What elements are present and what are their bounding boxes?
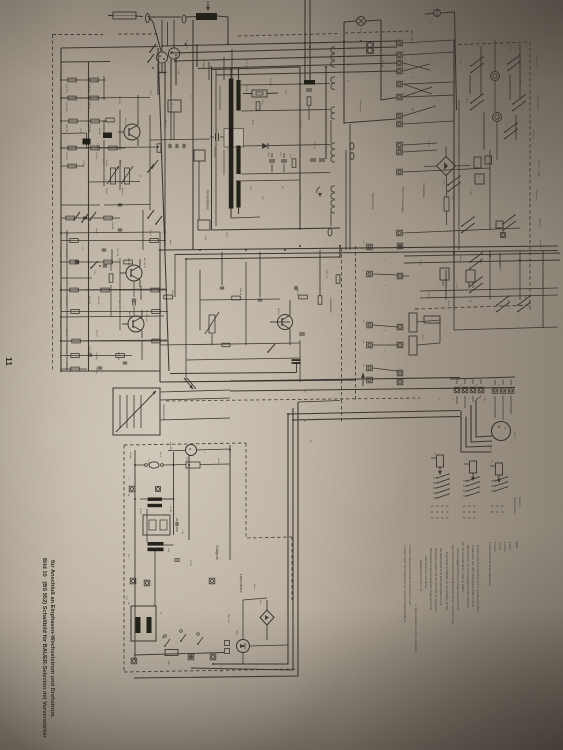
svg-text:0,8 PS: 0,8 PS [513,432,515,439]
wire [219,86,221,110]
switch S11 [180,640,182,642]
svg-text:Kondensator 8µF 450V sowie Rel: Kondensator 8µF 450V sowie Relais RS20 i… [471,545,475,607]
wire [403,64,430,71]
wire [425,13,434,16]
meter A [186,445,197,456]
resistor R311.575 [71,310,80,314]
dashed border [415,305,532,309]
terminal [367,377,373,383]
wire [61,61,110,64]
junction [453,252,455,254]
wire [191,408,293,670]
junction [60,316,62,318]
potentiometer P1 [111,168,116,184]
resistor R290155 [151,288,160,292]
terminal [367,365,373,371]
wire [266,625,268,640]
svg-text:R44 1k: R44 1k [239,288,241,296]
svg-text:4 Schütz: 4 Schütz [493,542,496,552]
rail [404,253,560,256]
connector pair [350,143,354,150]
wire [366,20,382,21]
switch group [512,103,514,105]
junction [170,52,172,54]
wire [174,254,176,297]
wire [344,21,357,22]
svg-text:R22 30k: R22 30k [88,296,90,305]
svg-text:Kohle: Kohle [253,584,255,590]
wire [221,252,223,285]
rail [241,110,330,112]
wire [134,450,136,520]
wire [161,20,163,52]
junction [360,40,362,42]
terminal [131,658,137,664]
wire [242,600,244,640]
resistor R9894 [90,96,99,100]
wire [200,299,280,300]
terminal [500,388,506,394]
bus [88,62,90,371]
svg-text:V: V [477,176,481,178]
capacitor [98,366,102,368]
relay K5 [409,336,417,355]
junction [174,60,176,62]
relay Z3 [194,150,205,161]
wire [417,320,440,322]
svg-text:Rv 50: Rv 50 [217,458,219,464]
wire [61,97,106,99]
svg-text:und Einweggleichrichtung anhän: und Einweggleichrichtung anhängen (siehe… [456,548,460,610]
svg-text:AC151r: AC151r [127,258,130,266]
wire [403,150,437,152]
junction [157,146,159,148]
wire [380,20,382,100]
junction [343,40,345,42]
bridge rectifier GL1 [437,157,456,176]
svg-text:R17 47: R17 47 [95,330,97,338]
svg-text:2,5A: 2,5A [167,660,170,665]
resistor R16672 [68,164,77,168]
resistor R31 [157,144,161,153]
wire [61,47,158,49]
svg-text:Leiterplatte: Leiterplatte [329,298,333,313]
resistor R41 [232,296,241,300]
svg-text:R7 1k: R7 1k [59,158,61,164]
svg-text:u. nötig Entstörkond. auf der: u. nötig Entstörkond. auf der Leiterplat… [414,604,418,652]
connector pair [350,153,354,160]
junction [304,42,306,44]
wire [167,22,169,46]
svg-text:Skalenlampe: Skalenlampe [359,100,361,113]
wire [175,57,177,85]
capacitor [103,264,107,266]
resistor R8072 [68,78,77,82]
svg-text:Steuerspannungen und Instrumen: Steuerspannungen und Instrument 50 µA in… [434,548,438,612]
wire [445,270,447,300]
svg-text:Vorw.: Vorw. [519,80,522,86]
wire [160,398,230,400]
svg-text:C4 50µ: C4 50µ [82,160,84,168]
wire [133,281,135,297]
svg-text:Magnet: Magnet [121,188,124,195]
junction [242,645,244,647]
resistor R40 [164,295,173,299]
wire [494,81,496,112]
wire [403,228,520,233]
svg-text:Regler: Regler [105,160,108,167]
svg-text:R12 3,9k: R12 3,9k [116,248,118,257]
wire [403,168,490,172]
wire [456,396,458,404]
terminal [397,68,403,74]
wire [148,16,161,51]
wire [424,165,437,168]
svg-text:3~: 3~ [503,427,507,430]
wire [403,63,430,70]
wire [542,250,544,328]
wire [173,20,175,48]
terminal [492,388,498,394]
svg-text:C3 100p: C3 100p [96,143,98,152]
wire [61,340,168,342]
resistor R29 [124,260,133,264]
wire [231,217,260,218]
transistor T3 [128,316,144,332]
wire [110,262,112,271]
svg-text:Belegung: Belegung [518,497,521,508]
wire [159,232,161,250]
junction [292,419,294,421]
svg-text:Schütz: Schütz [459,255,462,261]
svg-text:XBO 450: XBO 450 [227,614,229,623]
svg-text:lin.: lin. [139,175,141,178]
connector pin [331,84,333,90]
terminal [397,273,403,279]
svg-text:Luft: Luft [259,600,262,604]
resistor R42 [299,295,308,299]
capacitor [88,353,92,355]
svg-text:R6 470k: R6 470k [118,96,120,105]
junction [380,46,382,48]
indicator lamp [491,72,500,81]
box Vorverstaerker [211,66,213,230]
svg-text:Kleine Schaltergruppe: Kleine Schaltergruppe [401,187,405,213]
mains arrow [184,378,193,389]
wire [110,285,112,317]
terminal [478,387,484,393]
wire [162,498,174,500]
dashed border [529,42,531,310]
junction [238,68,240,70]
resistor R44 [336,275,340,284]
wire [223,150,225,175]
svg-text:R21 56: R21 56 [313,142,315,150]
lamp L2 [434,10,441,17]
wire [480,379,482,384]
wire [119,258,121,330]
svg-text:Heizung: Heizung [538,218,541,227]
contact ladder 2 [467,477,479,481]
wire [464,379,466,384]
wire [403,143,437,145]
junction [161,45,163,47]
junction [369,247,371,249]
transistor T4 [278,315,293,330]
capacitor C2 electrolytic [103,133,112,139]
svg-text:Drehstrom direkt an Klemmen R: Drehstrom direkt an Klemmen R S T und Mp… [476,545,480,614]
wire [483,112,485,150]
wire [296,362,298,373]
terminal [397,113,403,119]
svg-text:15 Watt: 15 Watt [202,60,205,68]
svg-text:Alle Widerstände ohne Besonder: Alle Widerstände ohne Besonderangaben 0,… [439,548,443,606]
junction [299,245,301,247]
connector plug X0 [146,14,150,23]
svg-text:AC 151 IV: AC 151 IV [143,258,146,269]
svg-text:Pegel: Pegel [149,230,151,236]
capacitor [123,361,127,363]
wire [103,120,105,135]
terminal [397,94,403,100]
svg-text:Gl 250: Gl 250 [169,506,171,513]
wire [231,49,233,80]
wire [403,40,454,43]
wire [173,452,175,535]
wire [188,455,190,540]
wire [229,445,231,520]
svg-text:C5 10n: C5 10n [87,224,89,232]
svg-text:R9 5,6k: R9 5,6k [59,222,61,230]
rail [420,295,558,298]
capacitor C50 [292,359,301,361]
resistor R262108 [104,260,113,264]
connector pin [331,150,333,156]
wire [103,76,105,100]
wire [456,165,471,168]
rail [170,373,297,374]
terminal pair [397,142,403,148]
page number 11 [4,357,14,366]
resistor R14895 [91,146,100,150]
junction [325,66,327,68]
connector pin [331,54,333,60]
wire [277,321,290,323]
wire [381,98,396,101]
wire [243,93,252,95]
capacitor [118,228,122,230]
wire [461,411,492,453]
svg-text:Sich 6A: Sich 6A [169,442,172,450]
junction [287,413,289,415]
wire [61,340,167,341]
rail [230,378,460,382]
wire [170,59,172,95]
svg-text:R2 68k: R2 68k [96,76,98,84]
diode D1 [262,143,268,149]
wire [373,274,397,275]
wire [140,498,147,500]
wire [134,653,224,656]
relay coil C3 [496,463,503,475]
svg-text:C7 100µ: C7 100µ [59,284,61,293]
bus [158,48,169,371]
potentiometer P2 [125,168,130,184]
capacitor C22 [281,159,287,161]
relay K1 [474,157,481,168]
resistor NGL [444,197,449,211]
bottom rail [61,370,160,372]
wire [223,57,225,80]
switch S3 [147,171,149,173]
wire [140,286,142,300]
svg-text:Netz: Netz [459,60,462,65]
svg-text:R3 1M: R3 1M [59,110,61,116]
svg-text:1 Phasen Motor nur Kondensator: 1 Phasen Motor nur Kondensator 5µ, Gerät… [403,545,407,623]
wire [61,289,167,291]
terminal [188,654,194,660]
igniter transformer TR3 [131,606,156,641]
svg-text:6,3V: 6,3V [284,90,286,95]
wire [150,16,181,18]
terminal [367,244,373,250]
switch S6 [90,267,92,269]
junction [88,261,90,263]
wire [61,204,100,206]
junction [173,464,175,466]
wire [343,22,345,124]
junction [60,79,62,81]
wire [149,115,151,210]
wire [61,120,107,122]
junction [188,464,190,466]
lamp L1 [357,17,366,26]
svg-text:C12 2µ: C12 2µ [59,366,61,374]
svg-text:R18 680: R18 680 [59,350,61,359]
junction [309,46,311,48]
wire [494,380,496,386]
connector pin [331,200,333,206]
wire [61,289,166,290]
wire [308,106,310,120]
junction [230,68,232,70]
svg-text:1 Phasen Wechsel Anschluß an K: 1 Phasen Wechsel Anschluß an Klemmen 3,4… [408,545,412,607]
switch S5 [147,217,149,219]
relay K3 [496,221,503,228]
rail [420,288,558,291]
resistor R341156 [152,339,161,343]
resistor R34176 [72,339,81,343]
resistor R52 [307,97,311,106]
svg-text:24V: 24V [261,196,263,200]
wire [136,15,143,18]
svg-text:M 1:1: M 1:1 [421,335,423,341]
svg-text:R42 470: R42 470 [171,290,173,299]
wire [403,121,454,124]
wire [458,100,460,250]
svg-text:Gleichr.: Gleichr. [427,140,430,147]
svg-text:0,22µ/250V~: 0,22µ/250V~ [213,146,215,159]
terminal [397,81,403,87]
wire [150,139,210,140]
bus [60,48,62,372]
wire [502,380,504,386]
terminal [454,387,460,393]
svg-text:R23 33: R23 33 [65,362,67,370]
resistor R9872 [68,96,77,100]
wire [494,396,496,418]
svg-text:C125: C125 [469,190,471,196]
connector pin [331,107,333,113]
svg-text:RC +20 Ohm/Volt RC B + 0,5/1: RC +20 Ohm/Volt RC B + 0,5/1 µF 1000 V [461,542,465,593]
wire [299,67,301,230]
wire [141,340,143,360]
wire [330,120,332,143]
wire [111,249,113,262]
wire [217,16,228,44]
terminal [462,387,468,393]
wire [471,405,492,442]
wire [62,132,86,135]
choke Dr2 [148,542,164,546]
terminal [144,580,150,586]
transformer TR1 core [229,79,234,209]
contact ladder 1 [437,474,449,478]
wire [211,334,213,345]
svg-text:AC153: AC153 [277,308,280,315]
wire [243,598,267,600]
svg-text:Wechselstrom nur mit Vorschalt: Wechselstrom nur mit Vorschaltgerät und … [466,545,470,609]
wire [160,390,230,392]
svg-text:R13 220: R13 220 [65,152,67,161]
resistor R27 [106,118,115,122]
junction [185,258,187,260]
rail [243,145,330,147]
svg-text:R20 1k: R20 1k [65,346,67,354]
terminal [397,40,403,46]
switch group [461,225,463,227]
wire [238,34,340,37]
svg-text:Si 0,2A tr: Si 0,2A tr [269,78,272,87]
caption line 1 [41,558,47,738]
switch group [504,131,506,133]
suppressor filter Z1 [196,13,217,20]
capacitor C41 [174,558,180,560]
svg-text:R4 10k: R4 10k [98,128,100,136]
svg-text:B250: B250 [457,148,459,154]
junction [190,656,192,658]
fuse Si2 [149,462,159,468]
dashed border [166,398,420,401]
wire [259,252,261,297]
wire [162,544,174,546]
wire [61,316,164,317]
switch group [447,184,449,186]
svg-text:3 Trafo: 3 Trafo [498,542,501,550]
capacitor C32 [294,286,296,290]
svg-text:Therm.: Therm. [447,300,450,307]
wire [293,417,460,421]
terminal [397,60,403,66]
svg-text:R 50: R 50 [185,457,187,462]
wire [325,67,327,159]
wire [489,150,491,230]
svg-text:R15 1,8k: R15 1,8k [97,296,99,305]
terminal [367,322,373,328]
svg-text:Regler: Regler [105,188,108,194]
terminal [397,230,403,236]
wire [309,0,311,80]
